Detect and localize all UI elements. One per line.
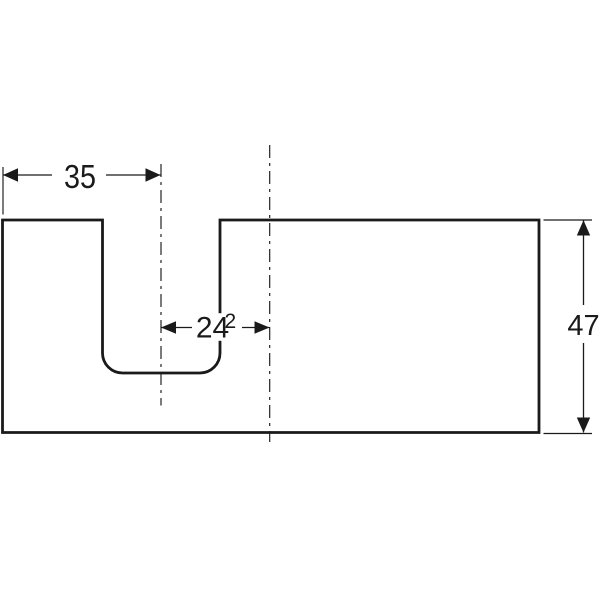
extension line top for dimension 47: [544, 219, 593, 221]
white gap behind label 47: [566, 305, 600, 343]
countertop outline with U-shaped cutout: [3, 220, 540, 433]
svg-text:35: 35: [64, 158, 96, 195]
dimension line 47: [583, 220, 585, 433]
svg-text:47: 47: [567, 310, 599, 342]
arrowhead top of dimension 47: [577, 220, 590, 235]
arrowhead left of dimension 24: [161, 321, 176, 334]
dimension line 35: [3, 174, 161, 176]
svg-text:2: 2: [225, 310, 237, 333]
arrowhead left of dimension 35: [3, 168, 18, 181]
centerline of cutout (dash-dot): [160, 164, 162, 406]
extension line left for dimension 35: [2, 167, 4, 215]
centerline of basin (dash-dot): [269, 145, 271, 442]
arrowhead bottom of dimension 47: [577, 418, 590, 433]
extension line bottom for dimension 47: [544, 433, 593, 435]
white gap behind label 35: [52, 160, 106, 192]
white gap behind label 24: [192, 313, 242, 341]
arrowhead right of dimension 35: [146, 168, 161, 181]
dimension line 24: [161, 327, 270, 329]
arrowhead right of dimension 24: [255, 321, 270, 334]
